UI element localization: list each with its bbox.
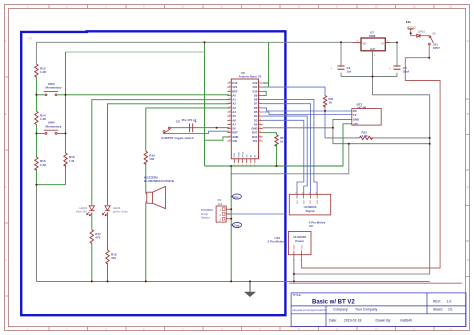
wire: left rail vertical through R13 R14 R15 [35,42,37,64]
svg-text:TITLE:: TITLE: [293,293,302,297]
node P2 net / rail junction [230,280,232,282]
svg-text:1 M: 1 M [69,159,75,163]
svg-text:100: 100 [149,157,154,161]
svg-text:1: 1 [234,165,235,167]
svg-text:B: B [467,112,469,116]
svg-text:2 Pin Molex: 2 Pin Molex [267,240,284,244]
wire: P2 data (blue) [226,213,285,215]
node ULN power pin1 junction [293,273,295,275]
svg-text:1: 1 [259,82,260,84]
svg-text:12: 12 [449,4,452,8]
wire: switched 12V down right side [302,45,441,268]
svg-text:8: 8 [259,111,260,113]
svg-text:RST: RST [232,131,238,135]
node power rail branch [204,41,206,43]
svg-text:VI: VI [381,41,384,45]
svg-text:HC-06: HC-06 [358,105,367,109]
svg-text:blue-3m: blue-3m [76,209,87,213]
wire: D12 to power rail staple [263,42,269,87]
node SW4 right junction [65,132,67,134]
Arduino pin labels [232,81,238,143]
wire: ULN blue D8 [263,100,317,195]
svg-text:A6: A6 [232,118,236,122]
svg-text:1x3: 1x3 [218,202,223,206]
wire: U7 VI to C6 top [390,42,397,66]
svg-text:13: 13 [259,131,261,133]
svg-text:6: 6 [259,102,260,104]
svg-text:Drawn By:: Drawn By: [376,318,392,322]
svg-text:U9: U9 [309,224,313,228]
svg-text:4: 4 [246,165,247,167]
svg-text:Date:: Date: [329,318,337,322]
capacitor C6 [389,66,409,74]
buzzer BUZZER2 [144,175,174,208]
svg-text:VCC: VCC [301,244,303,249]
wire: D10-D9 staple [263,91,267,95]
wire: LED4 net A2 [108,104,230,282]
svg-text:19: 19 [229,127,231,129]
Arduino bottom pin numbers [234,165,256,167]
svg-text:A2: A2 [232,102,236,106]
svg-text:D5: D5 [254,110,258,114]
wire: gnd down to right bus [294,77,430,275]
resistor R15 [35,157,47,170]
svg-text:D9: D9 [254,93,258,97]
Arduino right pin leads [259,83,263,141]
svg-text:27: 27 [229,94,231,96]
ULN2003 Signal U9 [289,192,330,228]
svg-text:A1: A1 [232,98,236,102]
svg-text:11: 11 [259,123,261,125]
wire: +8V top power rail [36,41,352,43]
svg-text:D: D [5,258,7,262]
svg-text:GND: GND [232,135,238,139]
connector P2 temp sensor [201,198,231,222]
node SW3 left junction [35,94,37,96]
wire: BT2 RX blue [263,108,352,111]
svg-text:A: A [467,39,469,43]
svg-text:1.2K: 1.2K [40,117,47,121]
svg-text:5: 5 [259,98,260,100]
svg-text:17: 17 [229,135,231,137]
node GND mid junction [348,143,350,145]
svg-text:VIN: VIN [232,139,237,143]
svg-text:6: 6 [302,192,303,194]
svg-text:30: 30 [229,82,231,84]
svg-text:12v: 12v [406,20,411,24]
wire: R12 row to right GND bus [325,137,430,139]
svg-text:A5: A5 [232,114,236,118]
svg-text:easyeda.com/project/mattz40: easyeda.com/project/mattz40 [292,308,326,312]
svg-text:24: 24 [229,106,231,108]
resistor R10 [263,133,286,166]
svg-text:10: 10 [375,4,378,8]
wire: LED3 net A1 [92,100,229,282]
title block [291,293,466,327]
svg-text:15: 15 [259,140,261,142]
svg-text:14: 14 [259,135,261,137]
svg-text:Sensor: Sensor [201,216,210,220]
svg-text:U1/BPST toggle switch: U1/BPST toggle switch [161,136,194,140]
node R11 / RX junction [324,110,326,112]
svg-text:Company:: Company: [333,308,349,312]
svg-text:+8v: +8v [27,37,33,41]
svg-text:28: 28 [229,90,231,92]
svg-text:1.0: 1.0 [447,299,452,303]
svg-text:Vcc: Vcc [233,195,239,199]
voltage regulator U7 7808 [353,30,390,57]
node LED4 net / rail junction [107,280,109,282]
svg-text:MOSI: MOSI [242,152,244,158]
diode U8 [417,30,436,37]
svg-text:C: C [5,185,7,189]
svg-text:Sheet:: Sheet: [433,308,443,312]
ground [244,281,256,297]
svg-text:D7: D7 [254,102,258,106]
capacitor C4 [331,66,351,74]
Arduino Nano U6 [231,71,261,159]
svg-text:2: 2 [259,86,260,88]
svg-text:GND: GND [294,244,296,249]
svg-text:2.2K: 2.2K [362,134,369,138]
resistor R12 (horizontal) [359,131,372,140]
svg-text:12: 12 [259,127,261,129]
wire: ULN blue D7 [263,104,311,195]
svg-text:B: B [5,112,7,116]
wire: mid gnd link y=174.5 [231,144,349,174]
svg-text:D2: D2 [254,122,258,126]
svg-text:23: 23 [229,111,231,113]
svg-text:12: 12 [449,328,452,332]
wire: ULN blue D3 [263,120,304,194]
svg-text:green 3mm: green 3mm [113,209,129,213]
wire: bottom right red line [289,282,462,284]
svg-text:470: 470 [95,236,100,240]
wire: bottom U link R15-R16 [36,184,65,186]
Vcc net flag [231,194,241,199]
svg-text:3V3: 3V3 [232,85,237,89]
svg-text:GND: GND [251,127,257,131]
LED4 [102,206,128,216]
wire: BT2 GND net to right GND bus [333,119,430,143]
svg-text:2: 2 [238,165,239,167]
svg-text:7: 7 [295,192,296,194]
svg-text:1K: 1K [329,101,333,105]
svg-text:D11: D11 [253,85,258,89]
wire: P2 vertical [230,166,232,281]
svg-text:Gnd: Gnd [233,223,239,227]
node SW4 left junction [35,132,37,134]
node P2 pin3 junction [230,218,232,220]
svg-text:3: 3 [259,90,260,92]
svg-text:D12: D12 [252,81,257,85]
wire: ULN blue D4 [263,116,308,194]
node pin1 / ground rail junction [293,280,295,282]
wire: cap bottoms gnd link [341,73,397,77]
node switch output junction [428,57,430,59]
svg-text:RST: RST [252,131,258,135]
capacitor C8 [176,118,197,132]
svg-text:VO: VO [363,41,367,45]
svg-text:1uf: 1uf [347,69,352,73]
svg-text:Basic w/ BT V2: Basic w/ BT V2 [312,300,355,306]
BT2 HC-06 module [352,102,381,125]
svg-text:Power: Power [295,239,305,243]
svg-text:D13: D13 [232,81,237,85]
svg-text:MISO: MISO [238,152,240,158]
node GND branch junction [332,127,334,129]
svg-text:25: 25 [229,102,231,104]
svg-text:BL-PBZN904AC2703YB: BL-PBZN904AC2703YB [144,179,174,183]
svg-text:10A10: 10A10 [418,30,426,33]
svg-text:GND: GND [370,48,376,51]
wire: U7 gnd lead down [372,51,374,77]
svg-text:470: 470 [111,256,116,260]
svg-text:26: 26 [229,98,231,100]
svg-text:+5V: +5V [353,122,358,126]
svg-text:6: 6 [254,165,255,167]
svg-text:RX0: RX0 [252,135,258,139]
svg-text:10: 10 [375,328,378,332]
node SW3 right junction [65,94,67,96]
wire: +5V run under Arduino to BT2 [205,124,352,166]
wire: R11 bottom to R12 row [324,105,326,138]
wire: Arduino right GND to BT2 gnd branch [263,127,333,129]
node 5V / C8 junction [216,127,218,129]
svg-text:SCK: SCK [234,152,236,157]
svg-text:A: A [5,39,7,43]
svg-text:5V: 5V [232,127,235,131]
svg-text:3: 3 [242,165,243,167]
node P2 pin1 junction [230,208,232,210]
svg-text:BUZZER2: BUZZER2 [144,175,158,179]
wire: power riser x=204 [204,42,206,166]
svg-text:REF: REF [232,89,238,93]
svg-text:33uf: 33uf [403,69,409,73]
node BT2 GND / bus junction [429,143,431,145]
Gnd net flag [231,223,241,228]
wire: BT2 TX blue [263,112,352,115]
node VCC12 junction [410,32,412,34]
svg-text:A7: A7 [232,122,236,126]
switch U21 SPST [429,36,441,50]
svg-text:1.2K: 1.2K [40,163,47,167]
wire: GND row left jog [205,137,230,140]
svg-text:mattz40: mattz40 [400,318,412,322]
node C4 branch junction [340,41,342,43]
selection highlight rectangle (thick blue) [21,31,285,315]
svg-text:7: 7 [259,106,260,108]
switch SW4 momentary [44,121,62,135]
resistor R19 [144,151,155,164]
wire: SW3 row to Arduino A0 [36,94,229,96]
svg-text:U8: U8 [432,32,436,36]
Arduino bottom pin leads [234,159,255,163]
toggle switch U1 [161,127,194,140]
svg-text:5: 5 [309,192,310,194]
Arduino left pin leads [227,83,231,141]
wire: D11 to R11 (blue) [263,87,325,95]
svg-text:Your Company: Your Company [355,308,378,312]
wire: ULN power pin1 to ground rail [293,259,295,282]
svg-text:Momentary: Momentary [46,124,62,128]
svg-text:Signal: Signal [305,209,314,213]
svg-text:D10: D10 [252,89,257,93]
svg-text:16: 16 [229,140,231,142]
svg-text:4: 4 [259,94,260,96]
node U7 GND junction [372,76,374,78]
wire: buzzer net A3 [146,108,229,282]
svg-text:10: 10 [259,119,261,121]
switch SW3 momentary [44,82,62,96]
svg-text:1/1: 1/1 [448,308,453,312]
node LED3 net / rail junction [91,280,93,282]
svg-text:9: 9 [259,115,260,117]
node R12 / GND bus junction [429,137,431,139]
svg-text:TX1: TX1 [252,139,257,143]
wire: 12V red net [411,29,430,36]
wire: SW4 row stubs [36,132,65,134]
svg-text:29: 29 [229,86,231,88]
ULN2003 Power U12 [267,231,311,262]
resistor R14 [35,111,47,124]
wire: C4 branch [340,42,342,76]
svg-text:C8: C8 [176,120,180,124]
svg-text:18: 18 [229,131,231,133]
svg-text:2019-02-18: 2019-02-18 [344,318,361,322]
svg-text:7808: 7808 [369,34,376,38]
node R15-R16 link junction [35,184,37,186]
svg-text:REV:: REV: [433,299,441,303]
wire: toggle to RST (blue) [164,131,229,133]
Arduino pin numbers [229,82,231,142]
resistor R16 [64,153,75,166]
resistor R13 [35,64,47,77]
svg-text:A3: A3 [232,106,236,110]
12V VCC flag [406,20,416,29]
svg-text:1: 1 [293,260,294,262]
svg-text:C: C [467,185,469,189]
wire: faint y=52 link [66,51,205,53]
svg-text:35v 470 uf: 35v 470 uf [182,118,197,122]
svg-text:D6: D6 [254,106,258,110]
node R10 bottom junction [276,165,278,167]
svg-text:A4: A4 [232,110,236,114]
svg-text:22: 22 [229,115,231,117]
svg-text:1K: 1K [280,140,284,144]
resistor R11 [323,96,334,108]
svg-text:4: 4 [316,192,317,194]
node +5V run / P2 branch [230,165,232,167]
Arduino bottom pin labels (vertical) [234,152,257,158]
svg-text:Momentary: Momentary [46,86,62,90]
svg-text:D: D [467,258,469,262]
resistor R17 [90,230,101,244]
svg-text:SPST: SPST [433,46,440,50]
svg-text:5: 5 [250,165,251,167]
node buzzer net / rail junction [145,280,147,282]
svg-text:D4: D4 [254,114,258,118]
LED3 [76,206,94,216]
svg-text:20: 20 [229,123,231,125]
resistor R18 [106,250,117,264]
wire: bottom ground rail [36,280,429,282]
svg-text:21: 21 [229,119,231,121]
svg-text:Arduino Nano V3: Arduino Nano V3 [239,75,262,79]
wire: x=65.5 vertical through R16 [65,52,67,185]
node ground symbol junction [249,280,251,282]
svg-text:2: 2 [301,260,302,262]
svg-text:A0: A0 [232,93,236,97]
node C6 top junction [396,41,398,43]
svg-text:D3: D3 [254,118,258,122]
wire: toggle switch / C8 to 5V pin [170,127,229,129]
svg-text:D8: D8 [254,98,258,102]
svg-text:1.2K: 1.2K [40,70,47,74]
